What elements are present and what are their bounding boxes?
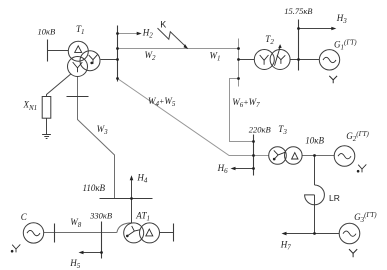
svg-text:W2: W2 <box>145 50 157 62</box>
svg-text:C: C <box>21 212 28 222</box>
svg-text:H4: H4 <box>136 172 148 184</box>
svg-text:G1(ГТ): G1(ГТ) <box>334 39 357 52</box>
svg-text:H2: H2 <box>142 28 154 40</box>
svg-text:T3: T3 <box>278 124 287 136</box>
svg-text:LR: LR <box>329 193 340 203</box>
svg-text:H7: H7 <box>280 240 292 252</box>
svg-text:H3: H3 <box>336 13 348 25</box>
svg-text:110кВ: 110кВ <box>83 183 106 193</box>
svg-text:H5: H5 <box>69 258 81 270</box>
svg-text:AT1: AT1 <box>135 211 150 223</box>
svg-text:K: K <box>160 20 166 30</box>
svg-text:W8: W8 <box>70 217 82 229</box>
svg-text:T2: T2 <box>265 34 274 46</box>
svg-text:W1: W1 <box>210 51 221 63</box>
svg-text:W4+W5: W4+W5 <box>148 96 176 108</box>
svg-text:10кВ: 10кВ <box>305 136 324 146</box>
svg-text:330кВ: 330кВ <box>89 211 112 221</box>
svg-text:W3: W3 <box>97 124 109 136</box>
svg-text:15.75кВ: 15.75кВ <box>284 6 312 16</box>
svg-text:G2(ГТ): G2(ГТ) <box>346 130 369 143</box>
svg-text:W6+W7: W6+W7 <box>232 97 260 109</box>
svg-text:XN1: XN1 <box>23 100 38 113</box>
svg-text:T1: T1 <box>76 24 85 36</box>
svg-text:G3(ГТ): G3(ГТ) <box>354 211 377 224</box>
svg-text:10кВ: 10кВ <box>38 27 56 37</box>
svg-text:H6: H6 <box>217 163 229 175</box>
svg-text:220кВ: 220кВ <box>249 124 271 134</box>
